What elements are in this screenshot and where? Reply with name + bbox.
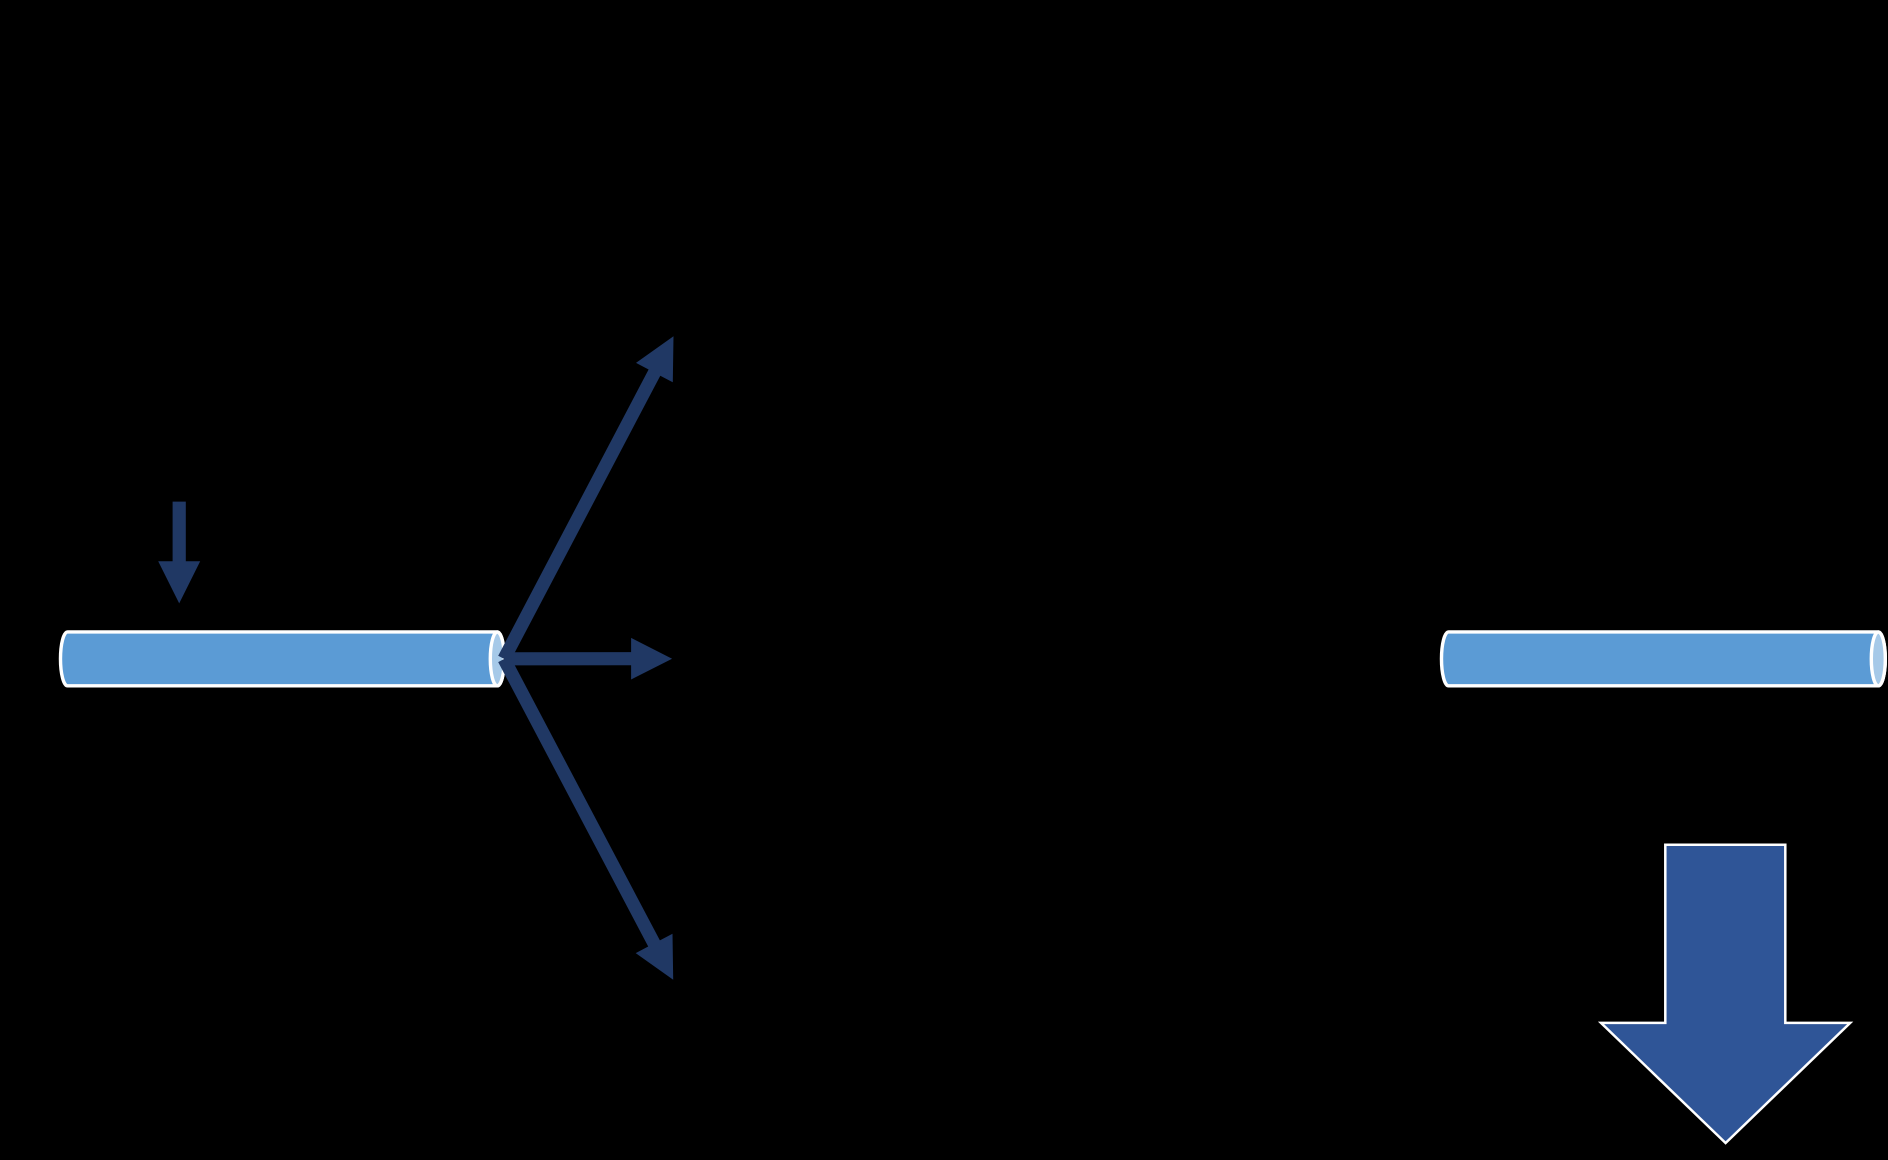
up-right arrow xyxy=(498,336,673,662)
cylinder bar right (end cap) xyxy=(1871,632,1885,686)
cylinder bar left (body) xyxy=(60,632,504,686)
cylinder bar right (body) xyxy=(1441,632,1885,686)
cylinder bar left (end cap) xyxy=(490,632,504,686)
small down arrow above left cylinder xyxy=(158,502,200,604)
big down block arrow bottom right xyxy=(1601,845,1850,1143)
horizontal right arrow xyxy=(504,638,672,680)
down-right arrow xyxy=(498,656,673,980)
